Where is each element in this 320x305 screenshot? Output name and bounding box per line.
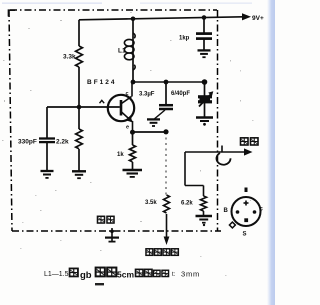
svg-text:t:: t:	[172, 272, 176, 278]
svg-text:S: S	[243, 232, 247, 238]
svg-text:5cm: 5cm	[117, 270, 134, 280]
svg-text:c: c	[126, 91, 129, 97]
svg-text:BF124: BF124	[87, 79, 117, 86]
svg-text:2.2k: 2.2k	[56, 139, 69, 146]
svg-text:6.2k: 6.2k	[181, 201, 193, 207]
svg-text:1kp: 1kp	[179, 36, 190, 42]
svg-text:6/40pF: 6/40pF	[171, 91, 190, 97]
svg-text:e: e	[126, 125, 129, 131]
svg-text:c: c	[260, 207, 264, 213]
svg-text:B: B	[224, 208, 229, 214]
svg-text:L1—1.5: L1—1.5	[44, 271, 69, 278]
svg-text:3.3µF: 3.3µF	[139, 92, 155, 98]
svg-text:3.5k: 3.5k	[145, 200, 157, 206]
svg-text:330pF: 330pF	[18, 139, 37, 146]
svg-text:3mm: 3mm	[181, 270, 200, 279]
svg-text:L1: L1	[118, 48, 126, 55]
svg-text:gb: gb	[80, 270, 92, 281]
svg-text:1k: 1k	[117, 152, 124, 158]
svg-text:9V+: 9V+	[252, 15, 264, 22]
svg-text:3.3k: 3.3k	[63, 54, 76, 61]
